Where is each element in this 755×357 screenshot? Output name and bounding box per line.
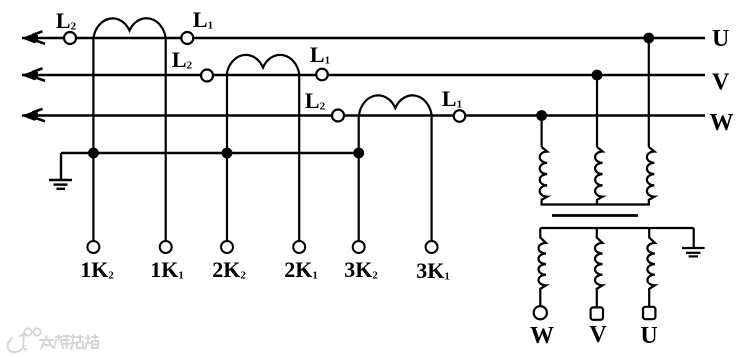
svg-text:2K1: 2K1 xyxy=(284,257,318,282)
svg-text:2K2: 2K2 xyxy=(212,257,246,282)
svg-text:U: U xyxy=(640,323,657,349)
svg-text:W: W xyxy=(530,323,554,349)
svg-text:L2: L2 xyxy=(305,88,326,113)
svg-text:U: U xyxy=(712,26,729,52)
svg-text:3K2: 3K2 xyxy=(344,257,378,282)
svg-text:V: V xyxy=(589,322,607,348)
svg-text:1K2: 1K2 xyxy=(80,257,114,282)
svg-text:L2: L2 xyxy=(56,8,77,33)
svg-text:L1: L1 xyxy=(442,86,462,111)
svg-text:L1: L1 xyxy=(310,42,330,67)
svg-text:1K1: 1K1 xyxy=(150,257,184,282)
svg-text:L2: L2 xyxy=(172,47,193,72)
svg-text:W: W xyxy=(710,110,734,136)
svg-text:3K1: 3K1 xyxy=(416,258,450,283)
svg-text:L1: L1 xyxy=(193,7,213,32)
svg-text:V: V xyxy=(712,70,730,96)
